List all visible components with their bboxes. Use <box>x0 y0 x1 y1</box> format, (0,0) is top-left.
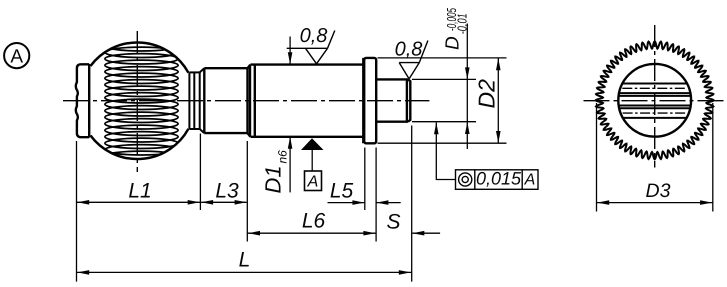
dimension D2 (vertical, arrows inside) <box>497 58 499 143</box>
grip bands inside inner circle <box>619 84 690 118</box>
leader from frame to pin <box>436 123 455 180</box>
svg-text:A: A <box>307 174 319 191</box>
concentricity tolerance frame 0,015 A <box>456 170 539 190</box>
view label A (circled) <box>4 43 29 68</box>
svg-text:L6: L6 <box>302 209 326 232</box>
datum triangle on body bottom <box>301 138 324 150</box>
end view: knurled gear circle <box>596 41 714 159</box>
dimension D with tolerance (vertical, arrows outside) <box>466 24 468 150</box>
dimension L3 <box>201 200 247 205</box>
svg-text:L: L <box>239 249 251 272</box>
body D1 <box>250 58 363 143</box>
knurl pattern on ball <box>105 41 178 162</box>
neck cylinder L3 <box>204 65 250 137</box>
svg-text:A: A <box>524 172 536 189</box>
knob end cap with wavy edge <box>76 64 89 137</box>
label D2 (rotated) <box>474 79 500 109</box>
roughness symbol 0,8 on pin <box>399 41 428 79</box>
svg-text:0,8: 0,8 <box>395 39 423 61</box>
svg-text:L1: L1 <box>128 179 151 202</box>
svg-text:D1: D1 <box>261 165 286 193</box>
dimension D1 n6 (vertical, arrows outside) <box>289 37 291 193</box>
svg-text:D3: D3 <box>646 180 671 202</box>
dimension L1 <box>77 201 201 203</box>
collar D2 <box>364 58 376 143</box>
dimension L5 (arrows outside) <box>328 202 401 204</box>
ball knob outline top arc <box>91 42 189 72</box>
extension lines from pin and collar <box>378 58 507 143</box>
end view centerlines <box>584 100 725 102</box>
ball knob outline bottom arc <box>91 129 189 159</box>
dimension L (overall) <box>77 271 412 273</box>
pin D <box>376 79 410 121</box>
svg-text:L3: L3 <box>215 179 239 202</box>
main horizontal centerline <box>63 100 429 102</box>
svg-text:D: D <box>443 36 464 50</box>
svg-text:D2: D2 <box>474 79 500 109</box>
cap right edge <box>88 64 90 138</box>
end view inner circle <box>618 64 691 137</box>
svg-text:A: A <box>10 47 23 68</box>
dimension S (arrows outside right) <box>412 232 440 234</box>
dimension L6 <box>247 232 376 234</box>
datum box A <box>305 171 322 191</box>
svg-text:0,015: 0,015 <box>476 169 522 189</box>
svg-text:L5: L5 <box>330 179 354 202</box>
svg-text:S: S <box>386 210 400 233</box>
roughness symbol 0,8 on body <box>287 31 335 64</box>
svg-text:n6: n6 <box>276 150 290 164</box>
bottom extension lines <box>77 126 412 282</box>
ball vertical centerline <box>136 31 138 172</box>
svg-text:0,8: 0,8 <box>300 25 328 47</box>
svg-text:-0,01: -0,01 <box>455 13 470 34</box>
label D -0,005/-0,01 (rotated) <box>443 8 470 50</box>
dimension D3 <box>597 103 713 212</box>
neck groove rings <box>189 68 204 133</box>
